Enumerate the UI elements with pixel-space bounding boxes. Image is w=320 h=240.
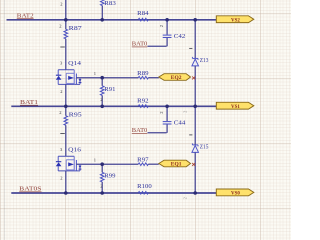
resistor R83 (101, 0, 117, 20)
svg-text:C44: C44 (174, 119, 186, 126)
wire BAT0 stub (lower) (148, 132, 167, 134)
resistor R87 (59, 20, 82, 70)
wire Q14 source to BAT1 (65, 84, 67, 106)
svg-text:R84: R84 (137, 10, 149, 17)
port VS2 (216, 16, 254, 24)
pin number 1 (rotated) R95 (60, 133, 65, 135)
pin number 1 (rotated) R87 (60, 46, 65, 48)
resistor R89 (102, 70, 159, 79)
svg-text:2: 2 (100, 97, 102, 102)
junction node 1 (Q14 gate) (100, 76, 104, 80)
svg-text:2: 2 (59, 110, 61, 115)
svg-text:1: 1 (94, 71, 96, 76)
wire Q16 source to BAT0S (65, 171, 67, 193)
svg-text:2: 2 (183, 111, 188, 113)
svg-text:2: 2 (159, 25, 164, 27)
svg-text:Z15: Z15 (200, 143, 209, 150)
svg-text:Q14: Q14 (68, 60, 82, 67)
pin number 1 (rotated) Z15 (189, 134, 192, 136)
svg-text:R87: R87 (69, 25, 83, 32)
svg-text:3: 3 (60, 147, 63, 152)
port VS1 (216, 102, 254, 110)
svg-text:R92: R92 (137, 97, 148, 104)
junction BAT0S / Q16 source (64, 191, 68, 195)
svg-text:2: 2 (60, 89, 62, 94)
svg-text:R89: R89 (137, 70, 149, 77)
svg-text:BAT0S: BAT0S (19, 186, 42, 193)
resistor R99 (100, 164, 116, 193)
wire BAT2 rail (7, 19, 217, 21)
svg-text:R100: R100 (137, 183, 152, 190)
svg-text:VS2: VS2 (231, 18, 240, 24)
svg-text:1: 1 (94, 158, 96, 163)
svg-text:EQ2: EQ2 (171, 75, 182, 81)
svg-text:C42: C42 (174, 33, 186, 40)
svg-text:2: 2 (60, 2, 62, 7)
svg-text:2: 2 (60, 176, 62, 181)
svg-text:EQ1: EQ1 (171, 162, 182, 168)
junction BAT1 / Q14 source (64, 105, 68, 109)
svg-text:3: 3 (60, 61, 63, 66)
junction BAT0S / R99 (100, 191, 104, 195)
svg-text:2: 2 (100, 184, 102, 189)
junction BAT2 / C42 (165, 18, 169, 22)
no-ERC marker (EQ1) (192, 163, 195, 166)
port EQ2 (159, 74, 191, 82)
svg-text:2: 2 (183, 197, 188, 199)
capacitor C44 (159, 106, 186, 133)
transistor Q16 (56, 147, 102, 181)
resistor R91 (100, 78, 115, 106)
junction BAT1 / R91 (100, 105, 104, 109)
svg-text:VS1: VS1 (231, 104, 240, 110)
svg-text:R83: R83 (104, 0, 116, 7)
wire BAT0 stub (upper) (148, 45, 167, 47)
resistor R95 (59, 106, 82, 156)
port EQ1 (159, 160, 191, 168)
junction node 1 (Q16 gate) (100, 162, 104, 166)
sheet border line (4, 0, 6, 240)
svg-text:R99: R99 (104, 172, 116, 179)
resistor R84 (137, 10, 149, 21)
zener diode Z13 (189, 20, 209, 107)
svg-text:2: 2 (59, 24, 61, 29)
junction BAT2 / R83 (100, 18, 104, 22)
resistor R100 (137, 183, 152, 194)
junction BAT1 / Z13 (193, 105, 197, 109)
capacitor C42 (159, 20, 185, 47)
wire BAT0S rail (11, 192, 216, 194)
pin number 1 (rotated) Z13 (189, 47, 192, 49)
no-ERC marker (EQ2) (192, 76, 195, 79)
junction BAT2 / Z13 (193, 18, 197, 22)
port VS0 (216, 189, 254, 197)
junction BAT2 / R87 (64, 18, 68, 22)
wire stub to top edge (65, 0, 67, 20)
svg-text:R95: R95 (69, 111, 83, 118)
svg-text:R91: R91 (104, 86, 115, 93)
svg-text:BAT0: BAT0 (132, 127, 148, 134)
wire BAT1 rail (11, 105, 216, 107)
junction BAT1 / C44 (165, 105, 169, 109)
svg-text:BAT2: BAT2 (17, 12, 34, 19)
svg-text:Z13: Z13 (200, 57, 209, 64)
svg-text:R97: R97 (137, 156, 149, 163)
svg-text:BAT0: BAT0 (132, 41, 148, 48)
svg-text:Q16: Q16 (68, 147, 82, 154)
resistor R92 (137, 97, 148, 107)
svg-text:2: 2 (159, 111, 164, 113)
resistor R97 (102, 156, 159, 165)
zener diode Z15 (189, 106, 209, 193)
transistor Q14 (56, 60, 102, 94)
svg-text:BAT1: BAT1 (20, 99, 38, 106)
junction BAT0S / Z15 (193, 191, 197, 195)
svg-text:VS0: VS0 (231, 191, 240, 197)
